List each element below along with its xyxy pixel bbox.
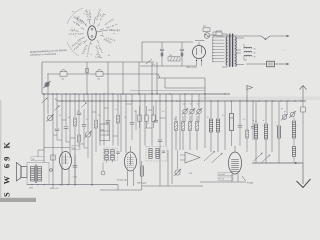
wire: [300, 86, 307, 90]
capacitor C6: [82, 125, 87, 127]
wire: [177, 150, 179, 169]
wire: [92, 111, 96, 113]
wire: [87, 138, 89, 159]
tube socket diagram: [77, 17, 104, 45]
junction: [103, 93, 104, 94]
svg-text:Werkst 502: Werkst 502: [50, 187, 59, 190]
wire: [107, 62, 109, 94]
coil C16: [38, 167, 42, 182]
junction: [230, 100, 231, 101]
junction: [169, 93, 170, 94]
wire: [191, 94, 193, 109]
wire: [117, 94, 119, 114]
wire: [252, 128, 254, 140]
junction: [272, 100, 273, 101]
wire: [180, 155, 185, 160]
wire: [189, 131, 191, 151]
wire: [58, 100, 306, 102]
junction: [125, 100, 126, 101]
wire: [196, 131, 198, 151]
wire: [47, 74, 49, 94]
junction: [83, 100, 84, 101]
wire: [231, 101, 233, 113]
wire: [100, 129, 104, 131]
resistor R4: [117, 115, 120, 123]
potentiometer P5: [196, 108, 202, 114]
wire: [74, 167, 76, 185]
junction: [246, 100, 247, 101]
wire: [196, 48, 198, 55]
mains transformer: [226, 35, 237, 67]
wire: [239, 127, 241, 146]
junction: [43, 93, 44, 94]
wire: [52, 94, 54, 188]
junction: [159, 100, 160, 101]
resistor R2: [78, 135, 81, 142]
junction: [265, 39, 266, 40]
svg-text:0,1: 0,1: [190, 104, 192, 106]
junction: [213, 40, 214, 41]
wire: [131, 124, 133, 140]
wire: [204, 78, 206, 100]
wire: [165, 94, 167, 146]
wire: [229, 34, 231, 68]
resistor R3: [95, 120, 98, 128]
wire: [231, 171, 239, 173]
svg-text:u.n: u.n: [72, 11, 75, 13]
junction: [207, 36, 208, 37]
wire: [142, 150, 203, 186]
wire: [265, 101, 267, 123]
potentiometer P4: [189, 108, 195, 114]
wire: [112, 94, 114, 146]
svg-text:o.u: o.u: [103, 14, 106, 16]
wire: [62, 119, 66, 121]
wire: [246, 85, 248, 101]
wire: [65, 154, 67, 165]
junction: [112, 93, 113, 94]
junction: [151, 93, 152, 94]
wire: [239, 101, 241, 125]
svg-text:0,1: 0,1: [59, 115, 61, 117]
junction: [139, 100, 140, 101]
svg-text:a: a: [262, 125, 263, 127]
resistor R9: [246, 130, 249, 138]
junction: [56, 93, 57, 94]
coil C5: [105, 155, 108, 160]
junction: [144, 100, 145, 101]
junction: [252, 100, 253, 101]
wire: [47, 94, 49, 115]
junction: [198, 100, 199, 101]
wire: [65, 94, 67, 126]
wire: [302, 101, 304, 107]
wire: [196, 58, 198, 66]
wire: [139, 94, 141, 165]
output transformer: [27, 163, 49, 185]
wire: [70, 137, 75, 139]
potentiometer P7: [281, 114, 288, 121]
junction: [31, 184, 32, 185]
capacitor C3: [55, 129, 60, 131]
svg-text:gn: gn: [281, 108, 283, 110]
wire: [135, 110, 137, 130]
wire: [164, 78, 166, 88]
wire: [130, 154, 132, 165]
wire: [236, 38, 244, 65]
junction: [78, 100, 79, 101]
coil C15: [31, 167, 35, 182]
wire: [74, 126, 76, 186]
junction: [165, 100, 166, 101]
svg-text:≈ C33: ≈ C33: [72, 177, 78, 179]
wire: [126, 103, 132, 105]
wire: [138, 62, 140, 94]
wire: [66, 128, 70, 142]
junction: [213, 61, 214, 62]
coil C13: [292, 121, 295, 138]
svg-text:am 604: am 604: [219, 174, 225, 176]
junction: [69, 100, 70, 101]
wire: [127, 163, 134, 165]
wire: [100, 131, 110, 135]
wire: [91, 94, 93, 186]
wire: [97, 69, 101, 71]
wire: [198, 94, 200, 109]
wire: [130, 146, 132, 152]
wire: [127, 171, 129, 187]
wire: [153, 121, 155, 128]
wire: [125, 94, 127, 153]
wire: [286, 101, 288, 113]
junction: [117, 100, 118, 101]
capacitor C14: [162, 151, 165, 152]
svg-text:b: b: [276, 125, 277, 127]
wire: [189, 116, 191, 122]
trimmer T6: [253, 153, 262, 161]
wire: [293, 138, 295, 146]
wire: [244, 44, 247, 60]
wire: [216, 35, 261, 37]
wire: [278, 101, 280, 125]
svg-text:b: b: [263, 120, 264, 122]
wire: [117, 123, 119, 146]
wire: [56, 94, 58, 128]
junction: [86, 93, 87, 94]
svg-text:LSp: LSp: [97, 79, 100, 81]
junction: [99, 100, 100, 101]
wire: [160, 117, 166, 119]
wire: [234, 146, 236, 152]
svg-text:0,5: 0,5: [243, 119, 245, 121]
wire: [127, 159, 134, 161]
IF transformer 1: [100, 124, 110, 141]
junction: [59, 184, 60, 185]
svg-text:0,1: 0,1: [147, 123, 149, 125]
junction: [61, 100, 62, 101]
wire: [63, 162, 69, 164]
wire: [139, 121, 141, 128]
junction: [196, 60, 197, 61]
wire: [86, 62, 88, 94]
junction: [91, 100, 92, 101]
wire: [130, 90, 205, 92]
wire: [293, 118, 295, 120]
junction: [107, 100, 108, 101]
svg-text:10k: 10k: [174, 119, 177, 121]
wire: [87, 94, 89, 131]
svg-text:VCL11 kgl: VCL11 kgl: [117, 180, 127, 182]
wire: [127, 165, 134, 167]
wire: [78, 142, 80, 148]
svg-text:50: 50: [68, 117, 70, 119]
svg-text:0,1: 0,1: [183, 104, 185, 106]
wire: [79, 143, 84, 145]
wire: [107, 160, 113, 163]
coil C1: [209, 119, 212, 132]
wire: [68, 169, 70, 185]
svg-text:0,1: 0,1: [197, 104, 199, 106]
wire: [161, 51, 163, 66]
junction: [205, 34, 206, 35]
wire: [175, 116, 177, 122]
svg-text:5000: 5000: [29, 188, 33, 190]
capacitor C8: [130, 123, 135, 125]
trimmer T7: [261, 155, 270, 163]
wire: [83, 109, 85, 124]
wire: [293, 157, 295, 164]
wire: [246, 63, 266, 65]
wire: [55, 98, 58, 101]
junction: [65, 93, 66, 94]
scan artifacts: [0, 198, 36, 202]
coil C14: [292, 147, 295, 157]
svg-text:0,3: 0,3: [162, 111, 164, 113]
resistor R1: [74, 118, 77, 126]
capacitor C10: [158, 140, 163, 142]
wire: [155, 100, 157, 120]
wire: [195, 40, 205, 42]
wire: [252, 101, 254, 126]
svg-text:50: 50: [124, 117, 126, 119]
junction: [213, 58, 214, 59]
junction: [74, 184, 75, 185]
junction: [74, 93, 75, 94]
capacitor C4: [64, 127, 69, 129]
wire: [133, 171, 135, 187]
wire: [95, 128, 97, 152]
junction: [201, 60, 202, 61]
wire: [159, 142, 161, 186]
potentiometer P1: [46, 114, 53, 121]
junction: [213, 49, 214, 50]
svg-text:LSp: LSp: [61, 79, 64, 81]
coil C10: [254, 124, 257, 139]
junction: [213, 55, 214, 56]
wire: [74, 94, 76, 117]
trimmer T1: [41, 98, 47, 104]
capacitor C7: [106, 121, 111, 123]
junction: [52, 93, 53, 94]
potentiometer P2: [84, 131, 91, 138]
wire: [302, 86, 304, 101]
wire: [41, 62, 43, 94]
wire: [198, 42, 200, 46]
coil C12: [277, 126, 280, 138]
wire: [35, 165, 38, 184]
junction: [287, 100, 288, 101]
junction: [224, 93, 225, 94]
wire: [231, 131, 233, 147]
coil C6: [111, 155, 114, 160]
wire: [96, 30, 108, 32]
wire: [100, 189, 142, 191]
resistor R5: [175, 122, 178, 131]
wire: [95, 94, 97, 119]
wire: [302, 112, 304, 163]
junction: [37, 184, 38, 185]
wire: [159, 94, 161, 139]
junction: [91, 184, 92, 185]
arrow terminal: [287, 35, 290, 37]
capacitor C15: [73, 166, 78, 168]
wire: [231, 174, 233, 182]
junction: [191, 100, 192, 101]
wire: [184, 114, 186, 122]
wire: [107, 94, 109, 120]
wire: [234, 52, 237, 67]
wire: [231, 163, 239, 165]
junction: [213, 37, 214, 38]
svg-text:Netz: Netz: [203, 25, 207, 28]
svg-text:0,2: 0,2: [115, 109, 117, 111]
trimmer T5: [212, 153, 223, 163]
wire: [141, 42, 143, 62]
wire: [104, 107, 108, 109]
wire: [246, 138, 248, 152]
wire: [244, 47, 252, 48]
wire: [53, 134, 57, 136]
junction: [213, 46, 214, 47]
capacitor C13: [116, 152, 119, 153]
junction: [138, 93, 139, 94]
junction: [131, 100, 132, 101]
junction: [239, 100, 240, 101]
trimmer T4: [204, 151, 215, 161]
svg-text:5W: 5W: [73, 148, 76, 150]
junction: [184, 93, 185, 94]
wire: [103, 94, 105, 146]
wire: [175, 131, 177, 151]
wire: [217, 132, 219, 152]
wire: [255, 101, 257, 123]
svg-text:a: a: [253, 120, 254, 122]
wire: [146, 121, 148, 128]
wire: [49, 169, 53, 171]
wire: [165, 87, 205, 89]
coil C11: [264, 124, 267, 139]
capacitor C12: [251, 127, 255, 128]
wire: [222, 34, 227, 67]
coil C8: [156, 149, 159, 159]
wire: [210, 101, 212, 118]
wire: [78, 115, 80, 135]
wire: [237, 174, 239, 182]
wire: [122, 62, 124, 94]
wire: [148, 109, 152, 111]
capacitor C11: [238, 126, 243, 128]
wire: [182, 116, 184, 122]
junction: [67, 184, 68, 185]
wire: [191, 114, 193, 122]
wire: [231, 161, 239, 163]
svg-text:WE13 μμF: WE13 μμF: [137, 183, 147, 185]
potentiometer P3: [182, 108, 188, 114]
wire: [156, 62, 158, 94]
wire: [226, 37, 227, 65]
wire: [146, 59, 152, 64]
wire: [302, 163, 304, 184]
trimmer T2: [54, 106, 59, 111]
svg-text:0,1: 0,1: [222, 115, 224, 117]
wire: [42, 93, 230, 95]
wire: [84, 126, 88, 148]
resistor R6: [182, 122, 185, 131]
wire: [151, 62, 153, 94]
svg-text:n.ach: n.ach: [95, 57, 100, 59]
wire: [69, 94, 71, 158]
wire: [61, 94, 63, 186]
wire: [179, 94, 181, 150]
wire: [107, 122, 109, 136]
potentiometer P6: [174, 169, 181, 176]
arrow terminal: [287, 63, 290, 65]
tube V1 output: [60, 152, 72, 170]
junction: [43, 184, 44, 185]
IF transformer 2: [146, 147, 167, 162]
svg-text:0,5: 0,5: [86, 119, 88, 121]
wire: [232, 34, 234, 68]
wire: [182, 131, 184, 151]
wire: [265, 139, 267, 163]
wire: [43, 94, 45, 163]
wire: [131, 94, 133, 122]
wire: [142, 41, 193, 43]
junction: [213, 52, 214, 53]
wire: [161, 42, 163, 49]
wire: [127, 161, 134, 163]
coil C7: [149, 149, 152, 159]
svg-text:Oka-(+)(-): Oka-(+)(-): [109, 29, 120, 32]
wire: [231, 165, 239, 167]
wire: [255, 139, 257, 163]
wire: [44, 147, 70, 149]
wire: [297, 179, 311, 188]
junction: [95, 93, 96, 94]
wire: [127, 167, 134, 169]
coil C2: [216, 119, 219, 132]
junction: [265, 100, 266, 101]
junction: [258, 100, 259, 101]
trimmer T3: [81, 103, 86, 108]
junction: [122, 93, 123, 94]
wire: [201, 47, 203, 54]
wire: [234, 37, 237, 52]
svg-text:gn: gn: [284, 111, 286, 113]
wire: [63, 159, 69, 161]
junction: [280, 100, 281, 101]
wire: [141, 161, 143, 190]
